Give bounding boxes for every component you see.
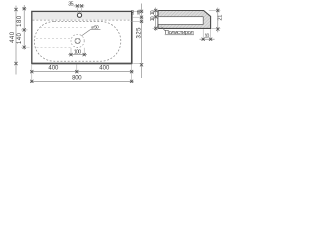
svg-text:⌀ 50: ⌀ 50: [91, 25, 99, 30]
dimension chain 50/85/325 (right of top view): [130, 4, 143, 79]
dimension 10 (section bottom): [200, 29, 215, 41]
svg-text:400: 400: [99, 66, 110, 72]
svg-text:21: 21: [218, 15, 224, 21]
svg-text:35: 35: [68, 2, 73, 8]
dimension 440 (left outer): [10, 6, 18, 75]
label polystyrene: [162, 27, 195, 36]
svg-text:400: 400: [48, 66, 59, 72]
svg-text:440: 440: [10, 31, 16, 43]
dimension 21 (section thickness): [209, 8, 224, 33]
bottom dimension row 400/400: [30, 64, 133, 83]
svg-text:140: 140: [17, 32, 23, 44]
svg-text:10: 10: [150, 10, 156, 15]
leader and label diameter 50 (drain hole): [81, 25, 100, 36]
inner basin stadium outline (dashed): [34, 22, 121, 62]
drain recess dashed circle: [71, 34, 84, 47]
polystyrene core: [158, 17, 203, 25]
svg-text:10: 10: [205, 33, 210, 39]
basin inner contour dashes: [36, 27, 88, 47]
countertop edge cross-section slab: [158, 11, 211, 29]
svg-text:100: 100: [74, 49, 81, 55]
hidden back edge dashed line: [33, 19, 132, 21]
heavier bottom/right edge shading: [31, 63, 132, 65]
svg-text:85: 85: [136, 9, 142, 14]
svg-text:800: 800: [72, 75, 82, 81]
dimension 100 (drain recess): [68, 48, 87, 56]
washbasin top-view back ledge (gray band): [32, 12, 130, 20]
bottom dimension row 800: [30, 75, 133, 83]
drain hole: [75, 38, 80, 43]
dimension 35 (faucet hole): [68, 2, 84, 14]
washbasin outer rectangle 800x440: [32, 11, 132, 63]
dimension chain 10/10 (section left): [150, 8, 159, 31]
svg-text:50: 50: [130, 9, 136, 14]
svg-text:180: 180: [17, 15, 23, 27]
dimension chain 180/140 (left inner): [17, 5, 29, 50]
faucet hole: [77, 13, 81, 17]
svg-text:325: 325: [136, 27, 142, 39]
svg-text:10: 10: [150, 16, 156, 21]
